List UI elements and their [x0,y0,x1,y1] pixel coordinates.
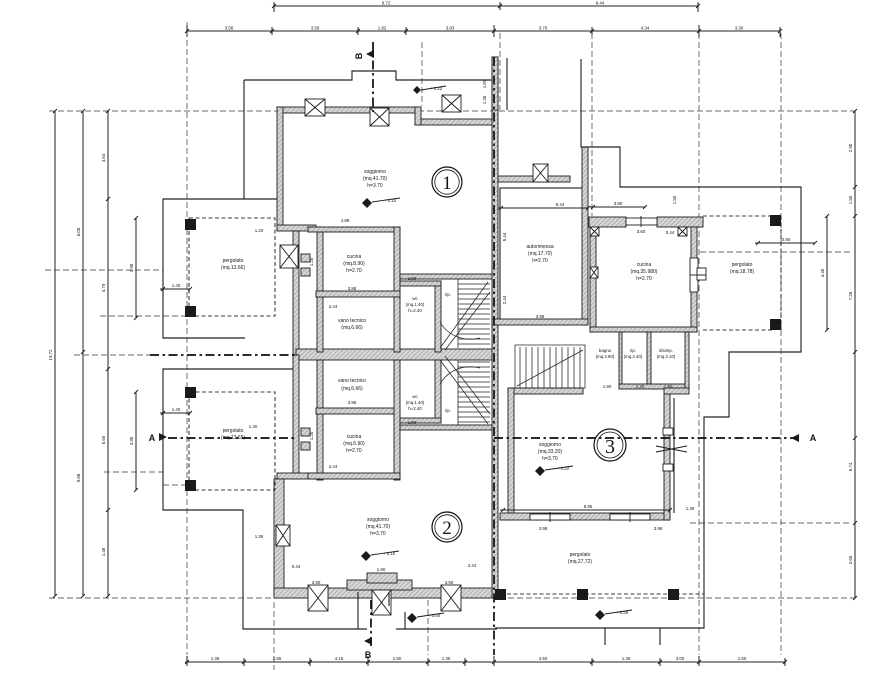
svg-text:1.50: 1.50 [393,656,402,661]
svg-text:(mq.1.40): (mq.1.40) [406,302,425,307]
wall kitchen1 right [394,227,400,297]
opening kitchen3 right with sill [690,258,706,292]
svg-text:A: A [810,433,817,443]
wall kitchen3 top left seg [589,217,626,227]
boundary stub bottom a [604,628,606,645]
pergola lower-left post sw [185,480,196,491]
pergola upper-left post sw [185,306,196,317]
pergola bottom post e [668,589,679,600]
wall left lower unit1 [293,231,299,355]
wall kitchen1 bottom [316,291,400,297]
window X top wall 1 [305,99,325,116]
stair unit1 treads [440,279,490,350]
svg-text:3.90: 3.90 [445,580,454,585]
grid dashed horizontal y316 left [100,315,189,317]
svg-text:1.35: 1.35 [482,95,487,104]
svg-text:2.90: 2.90 [848,143,853,152]
grid dashed horizontal y252 right [700,251,852,253]
svg-text:soggiorno: soggiorno [367,517,389,523]
wall step unit2 [277,473,316,479]
boundary stub bottom b [659,628,661,645]
window X top wall 3 [442,95,461,112]
svg-text:autorimessa: autorimessa [526,244,553,250]
svg-text:h=2.70: h=2.70 [636,276,652,282]
svg-text:bagno: bagno [599,348,612,353]
label pergolato lower-left [221,428,246,441]
svg-text:3.80: 3.80 [614,201,623,206]
svg-text:1.20: 1.20 [309,257,314,266]
door cluster soggiorno3 right [656,428,687,471]
svg-text:1.39: 1.39 [686,506,695,511]
svg-text:h=3.70: h=3.70 [542,456,558,462]
section mark B top [354,50,374,59]
section mark A right [791,433,817,443]
level marker unit2 [361,551,399,561]
label pergolato right [730,262,755,275]
svg-text:(mq.13.66): (mq.13.66) [221,265,246,271]
svg-text:0.44: 0.44 [666,230,675,235]
svg-text:1.90: 1.90 [664,384,673,389]
svg-text:(mq.41.70): (mq.41.70) [366,524,391,530]
svg-text:rip.: rip. [445,292,451,297]
window X top recess [370,108,389,126]
svg-text:3.00: 3.00 [676,656,685,661]
svg-text:(mq.6.66): (mq.6.66) [341,386,363,392]
svg-text:1.35: 1.35 [211,656,220,661]
label soggiorno unit3 [538,442,563,462]
section line A-A through pergola left [168,437,296,439]
svg-text:h=2.40: h=2.40 [408,308,422,313]
label vano tecnico unit1 [338,318,366,331]
svg-text:(mq.33.20): (mq.33.20) [538,449,563,455]
dimension top tier1 [272,1,700,13]
wall stairblock top unit1 [400,274,494,279]
level marker pergola bottom [595,610,632,620]
svg-text:soggiorno: soggiorno [539,442,561,448]
wall kitchen2 right [394,360,400,480]
svg-text:3.98: 3.98 [654,526,663,531]
svg-text:1.90: 1.90 [603,384,612,389]
wall stub upper terrace [492,57,498,110]
window soggiorno3 bottom left [530,512,570,522]
wall soggiorno3 left [508,388,514,520]
wall kitchen3 bottom [590,327,697,332]
svg-text:3.88: 3.88 [348,286,357,291]
grid dashed vertical x500 [499,33,501,110]
level marker unit3 [535,466,573,476]
wall step unit1 [277,225,316,231]
svg-text:1.50: 1.50 [672,195,677,204]
wall top recessed unit1 [415,119,494,125]
svg-text:3.90: 3.90 [312,580,321,585]
svg-text:disimp.: disimp. [659,348,673,353]
wall spine unit3 boundary [492,57,498,598]
svg-text:5.74: 5.74 [848,462,853,471]
pergola lower-left outline [163,369,367,629]
wall wc2 horizontal [400,418,441,423]
label wc unit2 [406,394,425,411]
dimension top tier2 [185,25,782,37]
wall garage right [582,147,588,325]
label cucina unit3 [631,262,658,282]
wall vano1 right [394,297,400,352]
section line B bottom vertical [370,600,372,648]
wall left lower unit2 [274,479,284,592]
wall bottom main unit2 [274,588,494,598]
wall garage party top [498,176,570,182]
svg-text:5.44: 5.44 [502,232,507,241]
grid dashed horizontal y472 left [104,471,163,473]
wall left upper unit1 [277,107,283,228]
pilaster X kitchen3 w mid [590,267,598,278]
terrace boundary unit3 top [495,59,801,628]
grid dashed horizontal y523 right [690,522,852,524]
stair unit2 treads [440,356,490,425]
entry steps below unit2 [358,592,405,629]
grid dashed vertical x274 bottom [273,602,275,670]
wall stub interior d [301,442,310,450]
svg-text:1.20: 1.20 [636,384,645,389]
section line A right [494,437,797,439]
grid dashed vertical x428 lower [427,600,429,655]
svg-text:8.44: 8.44 [596,1,605,6]
svg-text:1.50: 1.50 [738,656,747,661]
wall stairblock bottom unit2 [400,425,494,430]
svg-text:cucina: cucina [347,254,362,260]
svg-text:(mq.35.980): (mq.35.980) [631,269,658,275]
window X bottom wall 2 [441,585,461,611]
pergola bottom post c [577,589,588,600]
svg-text:2.44: 2.44 [502,295,507,304]
svg-text:wc: wc [412,394,418,399]
svg-text:3.85: 3.85 [348,400,357,405]
svg-text:0.90: 0.90 [782,237,791,242]
wall top jog unit1 [415,107,421,125]
wall stub interior b [301,268,310,276]
section line A left light lead [74,354,150,356]
svg-text:3.83: 3.83 [446,26,455,31]
grid dashed vertical x699 [698,33,700,655]
wall soggiorno3 bottom [500,513,670,520]
svg-text:(mq.18.78): (mq.18.78) [730,269,755,275]
wall bagno part2 [647,332,651,384]
svg-text:1.20: 1.20 [255,228,264,233]
svg-text:1: 1 [442,173,452,194]
window kitchen3 top double line [626,216,657,227]
rail right of soggiorno3 [673,398,675,513]
svg-text:4.50: 4.50 [539,656,548,661]
svg-text:1.40: 1.40 [172,283,181,288]
svg-text:pergolato: pergolato [223,258,244,264]
label bagno strip [596,348,676,359]
dimension right x855 [848,109,857,600]
section mark B bottom [364,637,372,660]
garage outline thin [500,188,584,322]
svg-text:vano tecnico: vano tecnico [338,378,366,384]
svg-text:h=3.70: h=3.70 [367,183,383,189]
svg-text:h=2.70: h=2.70 [532,258,548,264]
svg-text:2.44: 2.44 [329,304,338,309]
window soggiorno3 bottom right [610,512,650,522]
svg-text:(mq.6.90): (mq.6.90) [343,441,365,447]
svg-text:(mq.4.80): (mq.4.80) [596,354,615,359]
pergola upper-left post nw [185,219,196,230]
svg-text:1.50: 1.50 [848,195,853,204]
section line A left heavy [150,354,296,356]
wall bottom bump unit2 [367,573,397,583]
svg-text:pergolato: pergolato [732,262,753,268]
svg-text:rip.: rip. [630,348,636,353]
section line B top vertical [372,42,374,112]
svg-text:A: A [149,433,156,443]
svg-text:1.35: 1.35 [622,656,631,661]
level marker terrace [413,86,446,94]
label wc unit1 [406,296,425,313]
svg-text:(mq.8.90): (mq.8.90) [343,261,365,267]
svg-text:B: B [365,650,372,660]
svg-text:8.44: 8.44 [556,202,565,207]
grid dashed vertical x592 [591,33,593,216]
wall bottom recess unit2 [347,580,412,590]
svg-text:vano tecnico: vano tecnico [338,318,366,324]
wall kitchen3 top right seg [657,217,703,227]
svg-text:1.35: 1.35 [442,656,451,661]
boundary segment y629 entry east [396,628,497,630]
svg-text:3.44: 3.44 [468,563,477,568]
grid dashed vertical x781 [780,33,782,655]
svg-text:4.34: 4.34 [641,26,650,31]
pergola lower-left post nw [185,387,196,398]
wall wc2 vertical [435,360,441,423]
dimension bottom y662 [185,656,787,666]
svg-text:h=3.70: h=3.70 [370,531,386,537]
label cucina unit2 [343,434,365,454]
svg-text:1.90: 1.90 [408,420,417,425]
svg-text:1.90: 1.90 [408,276,417,281]
svg-text:(mq.2.40): (mq.2.40) [624,354,643,359]
unit number 3 [594,429,626,461]
dimension garage 8.44 [498,202,590,210]
window X bottom centre [372,590,391,615]
pergola right post ne [770,215,781,226]
svg-text:(mq.27.72): (mq.27.72) [568,559,593,565]
pilaster X kitchen3 ne [678,227,687,236]
svg-text:3.56: 3.56 [225,26,234,31]
svg-text:rip.: rip. [445,408,451,413]
wall stub interior c [301,428,310,436]
dimension x136 pergola lower [129,390,138,492]
svg-text:2.66: 2.66 [848,555,853,564]
svg-text:4.15: 4.15 [335,656,344,661]
wall bagno right [685,332,689,389]
svg-text:9.72: 9.72 [382,1,391,6]
svg-text:(mq.41.70): (mq.41.70) [363,176,388,182]
label cucina unit1 [343,254,365,274]
svg-text:h=2.70: h=2.70 [346,268,362,274]
grid dashed horizontal y111 [49,110,855,112]
wall stub interior a [301,254,310,262]
grid dashed horizontal y270 left [45,269,163,271]
svg-text:3.98: 3.98 [539,526,548,531]
svg-text:19.72: 19.72 [48,349,53,361]
label autorimessa [526,244,553,264]
pergola bottom dashed edge [494,593,704,595]
svg-text:1.20: 1.20 [309,431,314,440]
wall kitchen2 top [316,408,400,414]
stair unit3 treads [515,345,585,388]
window X left wall unit2 [276,525,290,546]
svg-text:9.88: 9.88 [76,473,81,482]
svg-text:3.60: 3.60 [637,229,646,234]
wall garage bottom [492,319,588,325]
svg-text:(mq.6.66): (mq.6.66) [341,325,363,331]
pergola right post se [770,319,781,330]
wall party unit1-unit2 [296,349,494,360]
level marker unit1 [362,198,400,208]
dimension 1.40 lower [160,407,192,415]
svg-text:1.36: 1.36 [255,534,264,539]
wall kitchen3 left [590,227,596,332]
svg-text:h=2.70: h=2.70 [346,448,362,454]
grid dashed vertical x187 [186,22,188,655]
wall soggiorno3 right [664,393,670,520]
svg-text:6.08: 6.08 [76,227,81,236]
section mark A left [149,433,167,443]
wall soggiorno3 top [508,388,583,394]
svg-text:3.90: 3.90 [129,436,134,445]
dimension x827 pergola right [820,214,829,332]
pergola right dashed edges [703,216,781,330]
svg-text:cucina: cucina [347,434,362,440]
wall kitchen1 top [308,227,400,232]
svg-text:soggiorno: soggiorno [364,169,386,175]
dimension left x83 [76,109,85,598]
svg-text:1.82: 1.82 [378,26,387,31]
grid dashed horizontal y598 [49,597,855,599]
dimension x136 pergola upper [129,216,138,320]
svg-text:1.30: 1.30 [249,424,258,429]
wall bagno part1 [619,332,622,384]
window X garage party wall [533,164,548,182]
svg-text:3.98: 3.98 [536,314,545,319]
wall kitchen2 bottom [308,473,400,479]
label vano tecnico unit2 [338,378,366,392]
svg-text:(mq.17.70): (mq.17.70) [528,251,553,257]
svg-text:2.44: 2.44 [329,464,338,469]
wall wc1 vertical [435,281,441,352]
wall wc1 horizontal [400,281,441,286]
wall stub soggiorno3 right top [664,388,689,394]
svg-text:h=2.40: h=2.40 [408,406,422,411]
svg-text:0.44: 0.44 [292,564,301,569]
svg-text:pergolato: pergolato [570,552,591,558]
window X left wall unit1 [280,245,298,268]
svg-text:4.79: 4.79 [101,283,106,292]
svg-text:8.95: 8.95 [584,504,593,509]
terrace stub line x507 [506,58,508,110]
unit number 2 [432,512,462,542]
svg-text:3.30: 3.30 [735,26,744,31]
label soggiorno unit1 [363,169,388,189]
svg-text:4.40: 4.40 [820,268,825,277]
svg-text:B: B [354,52,364,59]
svg-text:4.88: 4.88 [341,218,350,223]
dimension kitchen3 3.80 [590,201,647,209]
pergola upper-left outline [163,80,277,338]
svg-text:3.58: 3.58 [311,26,320,31]
svg-text:1.90: 1.90 [377,567,386,572]
svg-text:3.98: 3.98 [129,263,134,272]
label soggiorno unit2 [366,517,391,537]
pilaster X kitchen3 nw [590,227,599,236]
svg-text:pergolato: pergolato [223,428,244,434]
wall top main unit1 [277,107,420,113]
label pergolato upper-left [221,258,246,271]
wall corridor vertical unit1 [317,227,323,352]
dimension 0.90 pergola right [755,237,817,245]
pergola upper-left dashed rect [189,218,275,316]
svg-text:7.28: 7.28 [848,291,853,300]
wall left upper unit2 [293,355,299,479]
grid dashed horizontal y485 left [163,484,189,486]
svg-text:(mq.3.10): (mq.3.10) [657,354,676,359]
svg-text:3: 3 [605,436,615,458]
svg-text:cucina: cucina [637,262,652,268]
svg-text:2: 2 [442,518,452,539]
svg-text:wc: wc [412,296,418,301]
svg-text:6.66: 6.66 [101,435,106,444]
dimension soggiorno3 8.95 [500,504,672,512]
dimension left x55 [48,109,57,598]
section line B central vertical [493,57,495,655]
svg-text:1.55: 1.55 [273,656,282,661]
pergola lower-left dashed rect [189,392,275,490]
svg-text:1.89: 1.89 [482,79,487,88]
window X bottom wall 1 [308,585,328,611]
svg-text:3.70: 3.70 [539,26,548,31]
dimension left x108 [101,109,110,598]
label pergolato bottom [568,552,593,565]
wall corridor vertical unit2 [317,360,323,480]
svg-text:1.48: 1.48 [101,547,106,556]
svg-text:1.40: 1.40 [172,407,181,412]
terrace boundary upper canopy [244,71,492,80]
dimension 1.40 upper [160,283,192,291]
pergola bottom post w [495,589,506,600]
wall kitchen3 right [691,227,697,332]
svg-text:(mq.1.40): (mq.1.40) [406,400,425,405]
grid dashed vertical x422 upper [421,42,423,106]
svg-text:4.64: 4.64 [101,153,106,162]
wall bagno bottom [619,384,689,389]
level marker bottom centre [407,613,444,623]
unit number 1 [432,167,462,197]
